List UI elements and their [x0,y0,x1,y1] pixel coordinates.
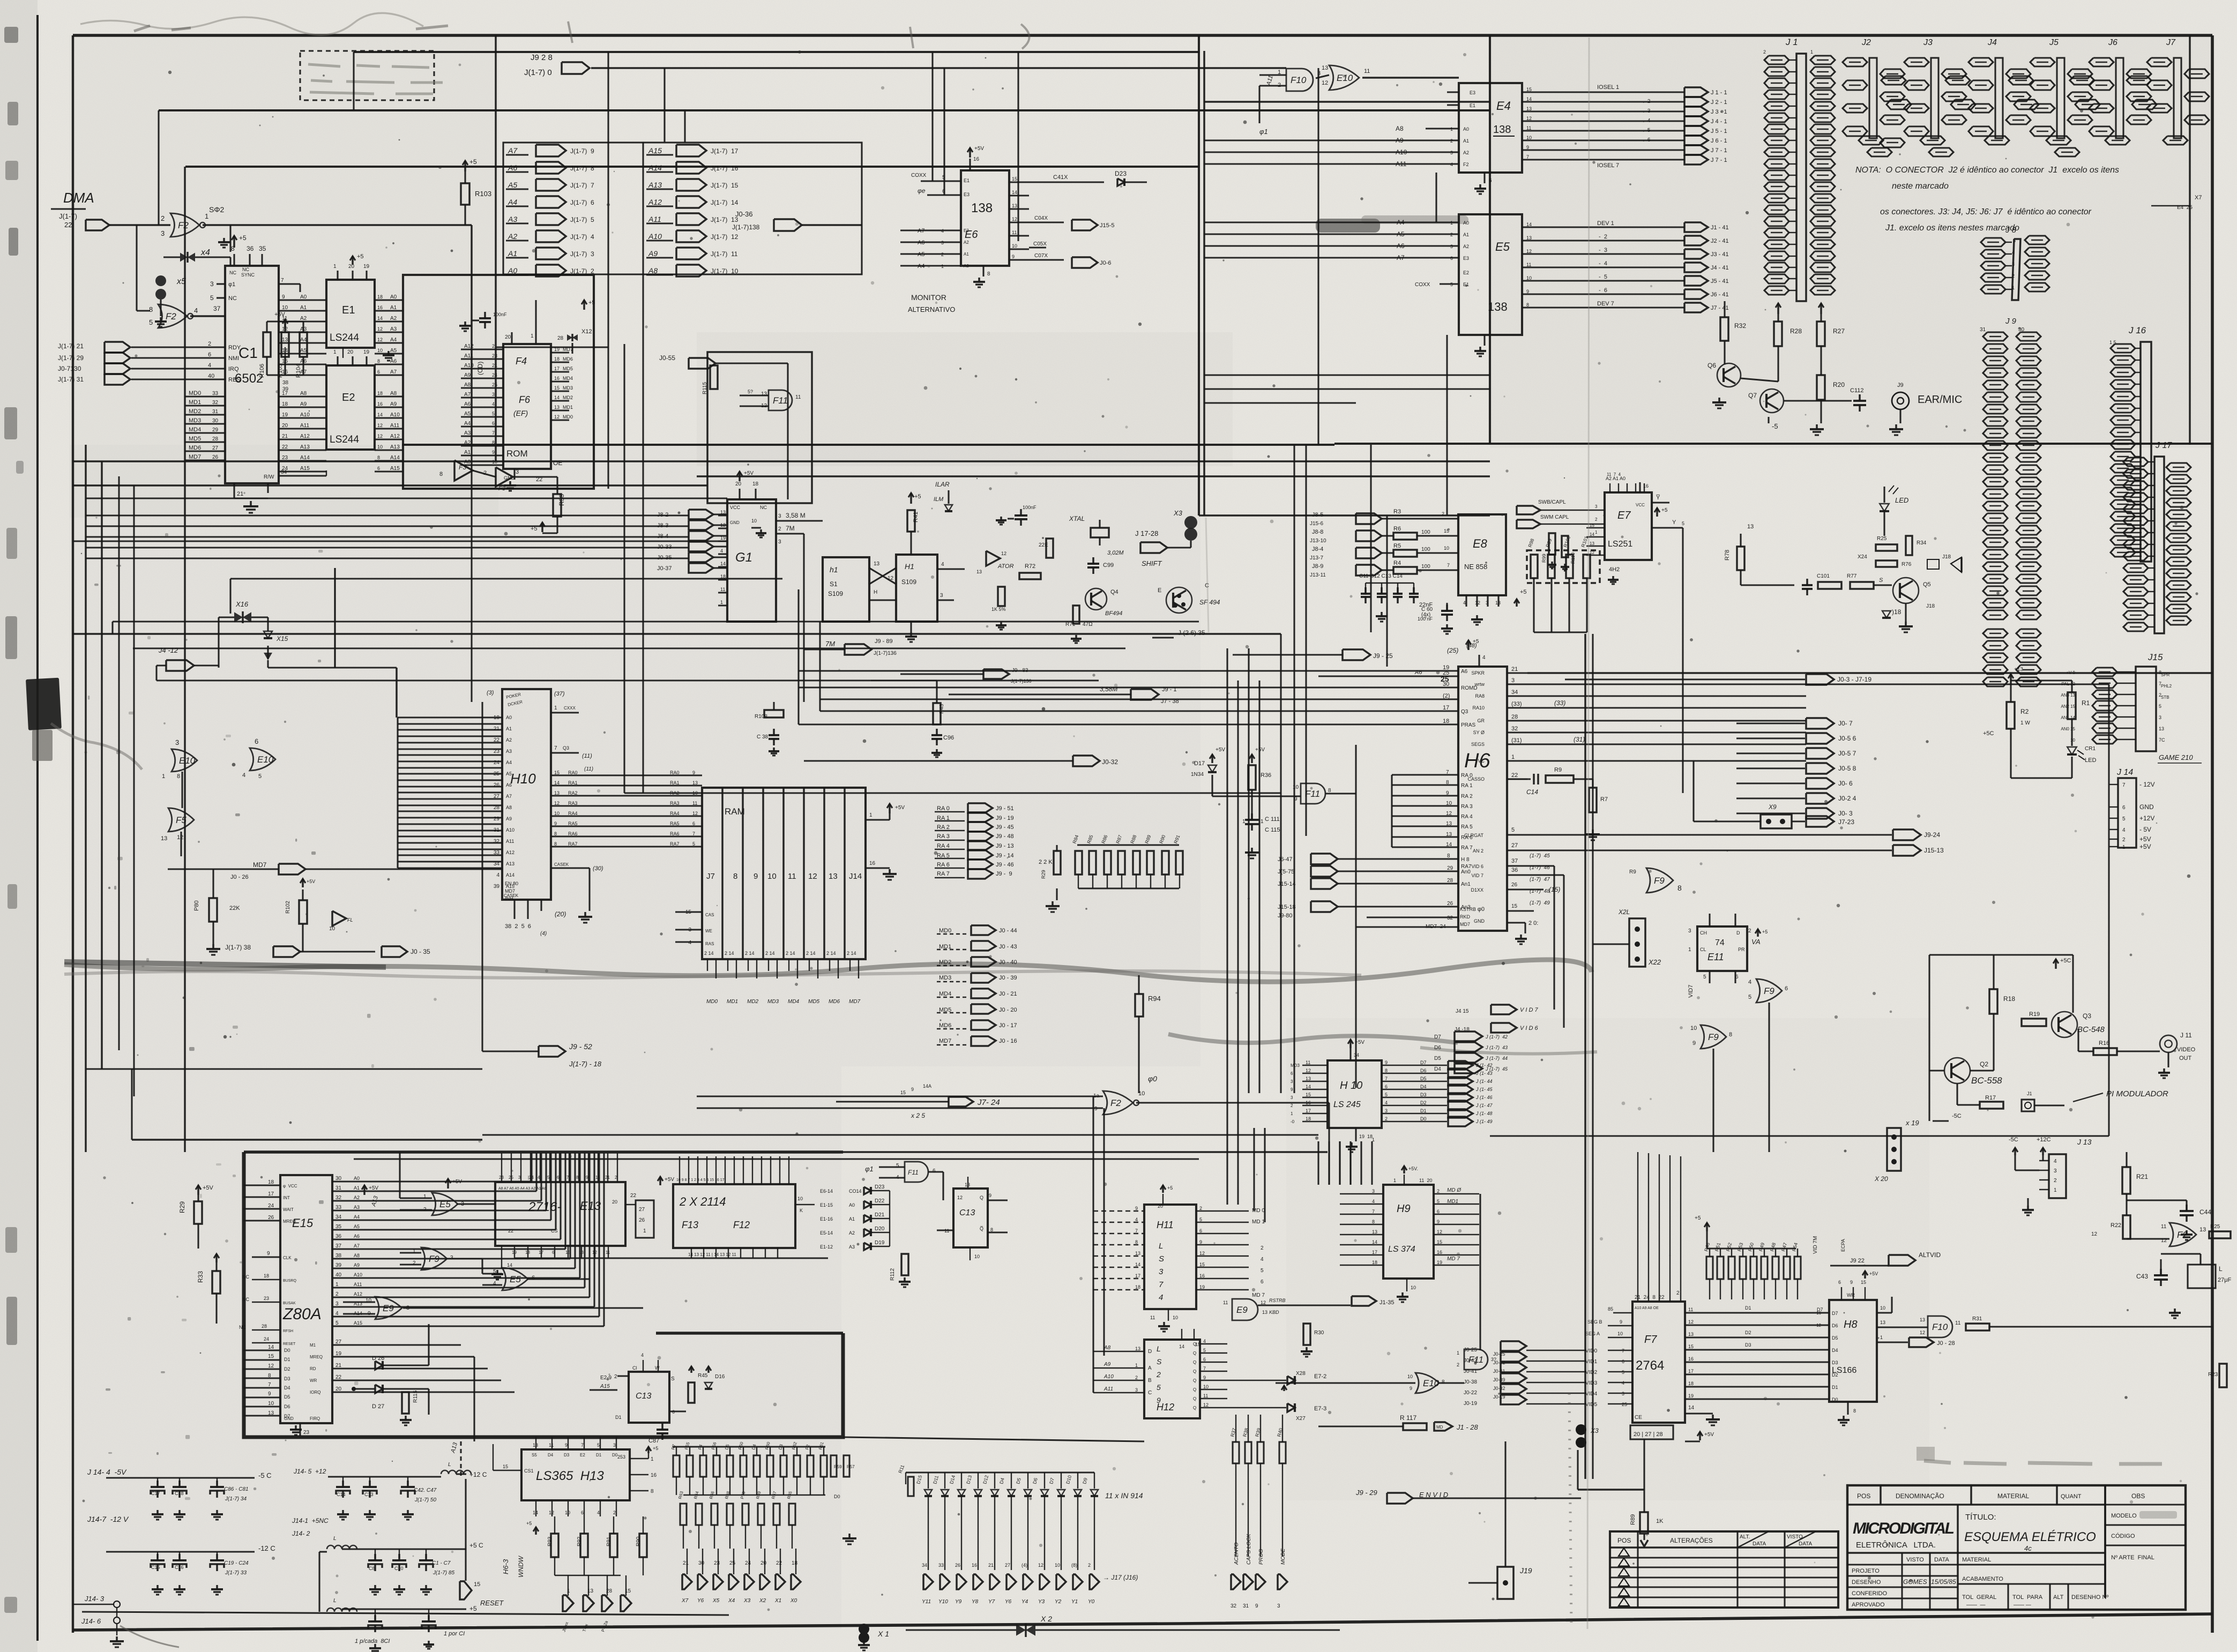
svg-text:C04X: C04X [1034,215,1048,221]
svg-text:F9: F9 [1764,986,1774,996]
svg-text:+5V: +5V [369,1185,378,1191]
svg-text:6: 6 [492,421,495,426]
svg-text:K: K [800,1208,803,1213]
svg-text:E2: E2 [580,1453,585,1457]
svg-text:BC-548: BC-548 [2077,1025,2105,1034]
svg-text:F11: F11 [1305,789,1320,799]
svg-text:A0: A0 [390,294,397,300]
svg-text:A8: A8 [300,391,307,397]
svg-text:A4: A4 [354,1214,360,1220]
svg-text:A13: A13 [506,861,514,866]
svg-text:A7: A7 [300,369,307,375]
svg-text:1: 1 [554,705,557,711]
svg-text:2: 2 [1450,138,1453,144]
svg-text:(1-7) 46: (1-7) 46 [1530,865,1550,871]
svg-text:E10: E10 [257,754,274,765]
svg-text:12: 12 [1437,1229,1442,1235]
svg-text:40: 40 [335,1272,342,1278]
svg-text:7: 7 [1526,154,1529,160]
svg-text:H11: H11 [1157,1220,1174,1230]
svg-text:J (1- 46: J (1- 46 [1475,1095,1493,1100]
svg-text:J2: J2 [1861,38,1871,47]
svg-text:D: D [1736,930,1740,936]
svg-text:A6: A6 [1414,669,1422,676]
svg-text:7: 7 [566,1175,569,1180]
svg-text:3: 3 [492,392,495,397]
svg-text:27μF: 27μF [2218,1277,2232,1283]
svg-text:9: 9 [492,450,495,455]
svg-text:J(1-7) 11: J(1-7) 11 [711,250,738,258]
svg-text:+5V: +5V [203,1185,214,1191]
svg-text:H6-3: H6-3 [502,1559,510,1574]
svg-text:+5V: +5V [974,146,984,152]
svg-text:MD6: MD6 [189,445,201,451]
svg-text:(1-7) 48: (1-7) 48 [1530,888,1550,894]
svg-text:Q3: Q3 [563,745,569,751]
svg-text:A8: A8 [648,266,658,275]
svg-text:RA8: RA8 [1475,693,1485,699]
svg-text:DMA: DMA [63,190,94,206]
svg-text:MD4: MD4 [939,991,951,997]
svg-text:E: E [1158,587,1161,594]
svg-text:9: 9 [1620,1319,1622,1325]
svg-text:A6: A6 [390,358,397,364]
svg-text:E2: E2 [1463,270,1469,275]
svg-text:17: 17 [539,1250,543,1255]
svg-text:9: 9 [989,1193,991,1198]
svg-text:J4 - 41: J4 - 41 [1711,265,1729,271]
svg-text:26: 26 [494,782,500,788]
svg-text:5: 5 [1703,974,1706,980]
svg-text:P80: P80 [193,900,200,911]
svg-text:- 12V: - 12V [2139,781,2155,788]
svg-text:E5-14: E5-14 [820,1230,833,1236]
svg-text:4: 4 [1482,655,1486,661]
svg-text:J6: J6 [2108,38,2117,47]
svg-text:J9 - 19: J9 - 19 [996,815,1014,821]
svg-text:J 16: J 16 [2128,325,2146,335]
svg-text:MD7: MD7 [849,999,861,1005]
svg-text:+5C: +5C [2060,958,2071,964]
svg-text:X12: X12 [581,328,592,335]
svg-text:+12 C: +12 C [469,1471,487,1478]
svg-text:J 14: J 14 [2116,768,2133,777]
svg-text:A12: A12 [506,850,514,855]
svg-text:MODE: MODE [1280,1549,1286,1565]
svg-text:J4 -18: J4 -18 [1455,1027,1470,1033]
svg-text:19: 19 [720,535,726,541]
svg-text:34: 34 [281,469,287,475]
svg-text:Y4: Y4 [1021,1599,1028,1605]
svg-text:18: 18 [264,1273,269,1279]
svg-text:R25: R25 [1877,536,1887,542]
svg-text:ALTERNATIVO: ALTERNATIVO [908,305,955,313]
svg-text:36: 36 [335,1234,342,1239]
svg-text:18: 18 [494,715,500,721]
svg-text:14: 14 [1590,532,1594,537]
svg-text:9: 9 [1526,145,1529,150]
svg-text:18: 18 [1372,1260,1377,1265]
svg-text:A0: A0 [506,715,512,720]
svg-text:22: 22 [1511,772,1518,779]
svg-text:D0: D0 [834,1494,840,1499]
svg-text:13: 13 [1880,1320,1885,1325]
svg-text:2716-: 2716- [528,1200,561,1214]
svg-text:PAL 12: PAL 12 [2062,682,2076,686]
svg-text:18: 18 [525,1250,530,1255]
svg-text:D1: D1 [284,1357,290,1362]
svg-text:9: 9 [554,821,557,826]
svg-text:. 5: . 5 [1640,128,1651,133]
svg-text:7: 7 [281,278,284,283]
svg-text:D6: D6 [1434,1045,1441,1051]
svg-text:C43: C43 [2136,1273,2148,1280]
svg-text:D3: D3 [1832,1360,1838,1365]
svg-text:4: 4 [941,562,944,567]
svg-text:A11: A11 [506,839,514,844]
svg-text:16: 16 [282,369,288,375]
svg-text:J1 - 28: J1 - 28 [1456,1423,1479,1431]
svg-text:J9 - 51: J9 - 51 [996,805,1014,812]
svg-text:TÍTULO:: TÍTULO: [1965,1513,1996,1522]
svg-text:C41X: C41X [1053,174,1068,181]
svg-text:1: 1 [1688,947,1691,953]
svg-text:C86 - C81: C86 - C81 [224,1486,249,1492]
svg-text:4: 4 [194,307,198,315]
svg-text:8: 8 [554,831,557,836]
svg-text:14: 14 [1446,842,1452,848]
svg-text:-12 C: -12 C [258,1544,275,1552]
svg-text:D5: D5 [1420,1076,1427,1081]
svg-text:7: 7 [1385,1076,1388,1081]
svg-text:MD3: MD3 [1291,1063,1300,1068]
svg-text:1: 1 [1135,1363,1138,1368]
svg-text:MD0: MD0 [706,999,718,1005]
svg-text:2: 2 [1385,1116,1388,1122]
svg-text:19: 19 [282,412,288,418]
svg-text:10: 10 [282,305,288,311]
svg-text:14: 14 [268,1344,274,1350]
svg-text:2: 2 [1676,1290,1680,1296]
svg-text:6: 6 [377,466,380,471]
svg-text:D3: D3 [284,1376,290,1381]
svg-text:J(1-7)138: J(1-7)138 [732,223,760,231]
svg-text:J7- 24: J7- 24 [977,1098,1000,1107]
svg-text:16: 16 [651,1472,657,1478]
svg-text:24: 24 [268,1203,274,1209]
svg-text:J 14- 4 -5V: J 14- 4 -5V [87,1468,127,1476]
svg-text:PRAS: PRAS [1461,722,1476,728]
svg-text:9: 9 [911,1087,914,1092]
svg-text:J0-39: J0-39 [1493,1377,1505,1382]
svg-text:D7: D7 [1434,1034,1441,1040]
svg-text:J8-4: J8-4 [1312,546,1323,552]
svg-text:MD2: MD2 [747,999,759,1005]
svg-text:X24: X24 [1858,554,1867,560]
svg-text:1: 1 [1393,1178,1396,1183]
svg-text:5: 5 [547,1175,550,1180]
svg-text:8: 8 [492,440,495,445]
svg-text:2: 2 [208,341,211,347]
svg-text:12: 12 [1816,1323,1821,1328]
svg-text:X28: X28 [1296,1371,1306,1377]
svg-text:CXXX: CXXX [564,706,576,711]
svg-text:A2: A2 [508,232,517,241]
svg-text:A1: A1 [964,252,969,257]
svg-text:9: 9 [1410,1386,1412,1391]
svg-text:2 X 2114: 2 X 2114 [679,1195,726,1208]
svg-text:8: 8 [1853,1408,1856,1414]
svg-text:J5 - 41: J5 - 41 [1711,278,1729,285]
svg-text:D6: D6 [1420,1068,1427,1073]
svg-text:A8: A8 [506,805,512,810]
svg-text:J0 - 17: J0 - 17 [999,1022,1017,1029]
svg-text:E10: E10 [1423,1378,1440,1388]
svg-text:8: 8 [987,271,990,277]
svg-text:3: 3 [1135,1387,1138,1393]
svg-text:ACENTO: ACENTO [1234,1542,1240,1565]
svg-text:RA1: RA1 [568,780,578,786]
svg-text:J(1-7) 7: J(1-7) 7 [570,182,594,189]
svg-text:S: S [1157,1357,1162,1366]
svg-text:J(1-7) 14: J(1-7) 14 [711,199,739,206]
svg-text:14: 14 [720,561,726,566]
svg-text:7: 7 [1446,769,1449,775]
svg-text:Q4: Q4 [1110,589,1118,595]
svg-text:13: 13 [2199,1227,2206,1233]
svg-text:3: 3 [161,229,165,237]
svg-text:21: 21 [335,1363,342,1369]
svg-text:13: 13 [1372,1229,1377,1235]
svg-text:25: 25 [1441,675,1449,683]
svg-text:40: 40 [208,373,214,379]
svg-text:X 2: X 2 [1040,1614,1052,1623]
svg-text:CO14: CO14 [849,1188,862,1194]
svg-text:wrtw: wrtw [1474,682,1485,687]
svg-text:20: 20 [505,334,511,340]
svg-text:E7-3: E7-3 [1314,1406,1326,1412]
svg-text:Q6: Q6 [1707,362,1716,369]
svg-text:18: 18 [377,391,383,396]
svg-text:J15: J15 [2147,652,2163,662]
svg-text:35: 35 [259,245,266,252]
svg-text:4: 4 [2122,827,2126,833]
svg-text:20: 20 [760,1560,767,1566]
svg-text:10: 10 [1173,1315,1178,1320]
svg-text:11: 11 [606,1250,610,1255]
svg-text:11 x IN 914: 11 x IN 914 [1105,1491,1143,1500]
svg-text:12: 12 [377,326,383,332]
svg-text:A15: A15 [390,466,400,472]
svg-text:J (1- 44: J (1- 44 [1475,1079,1493,1084]
svg-text:→ J17 (J16): → J17 (J16) [1103,1574,1138,1581]
svg-text:37: 37 [335,1243,342,1249]
svg-text:J14: J14 [849,872,862,881]
svg-text:8: 8 [377,358,380,364]
svg-text:A4: A4 [390,337,397,343]
svg-text:J(1-7) 12: J(1-7) 12 [711,233,739,241]
svg-text:J0 - 21: J0 - 21 [999,991,1017,997]
svg-text:GOMES: GOMES [1903,1578,1927,1586]
svg-text:8: 8 [1135,1239,1138,1245]
svg-text:F9: F9 [1654,876,1665,886]
svg-text:CLK: CLK [283,1255,292,1260]
svg-text:ALT.: ALT. [1740,1534,1750,1540]
svg-text:J7: J7 [2166,38,2176,47]
svg-text:NC: NC [242,1297,249,1302]
svg-text:18: 18 [752,481,759,487]
svg-text:5: 5 [2122,816,2126,822]
svg-text:J4: J4 [1987,38,1997,47]
svg-text:15: 15 [503,1464,508,1469]
svg-text:R31: R31 [1972,1316,1982,1322]
svg-text:21: 21 [683,1560,689,1566]
svg-text:J4 -12: J4 -12 [158,646,178,654]
svg-text:J0-25: J0-25 [1464,1347,1477,1353]
svg-text:φe: φe [918,187,926,195]
svg-text:Nº ARTE FINAL: Nº ARTE FINAL [2111,1554,2154,1561]
svg-text:KSTRB: KSTRB [1460,907,1476,912]
svg-text:J0-32: J0-32 [1102,758,1118,766]
svg-text:F2: F2 [2177,1230,2188,1240]
svg-text:13: 13 [1495,600,1501,606]
svg-text:A5: A5 [508,181,517,189]
svg-text:LS 374: LS 374 [1388,1245,1415,1254]
svg-text:6: 6 [208,352,211,358]
svg-text:D6: D6 [1832,1323,1838,1328]
svg-text:C19 - C24: C19 - C24 [224,1560,249,1566]
svg-text:R90: R90 [636,1536,642,1546]
svg-text:9: 9 [1692,1040,1696,1046]
svg-text:D 27: D 27 [372,1403,384,1410]
svg-text:A10: A10 [1103,1374,1114,1380]
svg-text:A6: A6 [464,401,471,407]
svg-text:3: 3 [778,539,781,545]
svg-text:W: W [655,1365,660,1371]
svg-text:28: 28 [1511,714,1518,720]
svg-text:A3: A3 [508,215,517,223]
svg-text:D 26: D 26 [372,1355,384,1362]
svg-text:J19: J19 [1519,1566,1532,1575]
svg-text:C1 - C7: C1 - C7 [432,1560,451,1566]
svg-text:2: 2 [161,214,165,222]
svg-text:A2: A2 [1463,244,1469,249]
svg-text:253: 253 [617,1454,625,1460]
svg-text:A10: A10 [300,412,310,418]
svg-text:14: 14 [507,1262,512,1268]
svg-text:21: 21 [282,433,288,439]
svg-text:8: 8 [554,841,557,847]
svg-text:15: 15 [474,1581,480,1588]
svg-text:11: 11 [2161,1224,2167,1230]
svg-text:J8-9: J8-9 [1312,563,1323,570]
svg-text:4: 4 [2054,1158,2057,1164]
svg-text:D20: D20 [875,1226,885,1232]
svg-text:A5: A5 [464,411,471,417]
svg-text:4: 4 [208,362,211,369]
svg-text:F9: F9 [429,1254,439,1264]
svg-text:1: 1 [1880,1335,1883,1340]
svg-text:MD5: MD5 [563,366,573,371]
svg-text:L: L [448,1462,451,1468]
svg-text:20: 20 [1158,1204,1163,1209]
svg-text:S1: S1 [830,580,838,588]
svg-text:10: 10 [1407,1374,1413,1379]
svg-text:RA 5: RA 5 [1461,824,1473,830]
svg-text:+5V: +5V [1704,1432,1714,1438]
svg-text:11: 11 [1306,1060,1310,1065]
svg-text:H1: H1 [905,562,914,571]
svg-text:VID 7: VID 7 [1471,873,1483,878]
svg-text:C15: C15 [151,1565,160,1570]
svg-text:12: 12 [692,811,698,816]
svg-text:17: 17 [1306,1108,1311,1113]
svg-text:H 8: H 8 [1461,857,1470,863]
svg-text:VIDEO: VIDEO [2177,1046,2196,1053]
svg-text:+13: +13 [2014,667,2023,672]
svg-text:33: 33 [938,1563,944,1568]
svg-text:J0 - 44: J0 - 44 [999,928,1017,934]
svg-text:16: 16 [1199,1273,1205,1279]
svg-text:138: 138 [971,201,993,215]
svg-text:J15-6: J15-6 [1310,521,1323,527]
svg-text:13: 13 [1322,65,1328,71]
svg-text:3: 3 [1277,1603,1280,1609]
svg-text:J0-7130: J0-7130 [58,365,81,372]
svg-text:MD4: MD4 [788,999,800,1005]
svg-text:C05X: C05X [1033,241,1047,247]
svg-text:ELETRÔNICA LTDA.: ELETRÔNICA LTDA. [1856,1541,1936,1550]
svg-text:CAS: CAS [705,913,714,917]
svg-text:10: 10 [377,348,383,353]
svg-text:J9 2 8: J9 2 8 [531,53,553,62]
svg-text:A8 A7 A6 A5 A4 A3 A2 A1 A0: A8 A7 A6 A5 A4 A3 A2 A1 A0 [498,1187,547,1191]
svg-text:3: 3 [1486,600,1488,606]
svg-text:A6: A6 [354,1234,360,1239]
svg-text:L: L [1157,1344,1161,1353]
svg-text:16: 16 [377,401,383,407]
svg-text:CAPS LOCK: CAPS LOCK [1246,1533,1252,1565]
svg-text:+5: +5 [469,158,477,166]
svg-text:4: 4 [641,1352,644,1358]
svg-text:33: 33 [212,391,219,397]
svg-text:4: 4 [242,772,245,779]
svg-text:F7: F7 [1644,1334,1657,1345]
svg-text:R1: R1 [2082,699,2090,707]
svg-text:12: 12 [1475,600,1480,606]
svg-text:25: 25 [729,1560,736,1566]
svg-text:8: 8 [733,872,737,881]
svg-text:J9 - 52: J9 - 52 [569,1042,592,1051]
svg-text:22: 22 [335,1374,342,1380]
svg-text:Y̅: Y̅ [1656,495,1660,501]
svg-text:A12: A12 [648,198,662,206]
svg-text:(8): (8) [1071,1563,1077,1568]
svg-text:31: 31 [494,827,500,833]
svg-text:MD3: MD3 [563,385,573,391]
svg-text:+5: +5 [1695,1215,1701,1221]
svg-text:15: 15 [554,770,560,775]
svg-text:φ1: φ1 [1259,128,1268,136]
svg-text:MD4: MD4 [563,376,573,381]
svg-text:Y2: Y2 [1055,1599,1062,1605]
svg-text:A11: A11 [300,423,309,429]
svg-text:15: 15 [1306,1092,1311,1097]
svg-text:J13-10: J13-10 [1310,538,1326,544]
svg-text:SYNC: SYNC [241,272,255,278]
svg-text:14: 14 [1372,1239,1377,1245]
svg-text:J 5 - 1: J 5 - 1 [1711,128,1727,134]
